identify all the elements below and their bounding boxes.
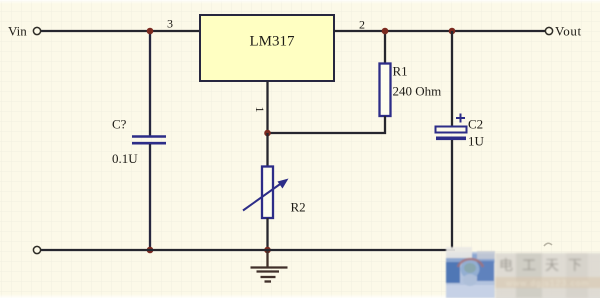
svg-text:电工天下: 电工天下	[499, 257, 591, 273]
wire R1 bottom to ADJ	[268, 116, 386, 133]
capacitor C1 plates	[132, 137, 166, 144]
junction node IN	[147, 28, 154, 35]
capacitor C2 polarized	[436, 114, 467, 141]
junction node ADJ	[264, 130, 271, 137]
junction node OUT-R1	[382, 28, 389, 35]
pin 1 wire (ADJ)	[266, 81, 268, 133]
wire top-right	[334, 30, 545, 32]
svg-text:1: 1	[253, 107, 267, 113]
terminal Vout	[545, 27, 552, 34]
terminal Vin	[33, 27, 40, 34]
svg-text:3: 3	[167, 17, 173, 31]
svg-text:C?: C?	[112, 117, 127, 132]
wire C2 bottom	[451, 140, 453, 250]
wire input cap drop	[149, 31, 151, 136]
wire R2 bottom	[266, 218, 268, 250]
junction node GND-R2	[264, 247, 271, 254]
bottom rail wire	[41, 249, 455, 251]
svg-text:R2: R2	[291, 200, 306, 215]
junction node GND-C1	[147, 247, 154, 254]
wire ADJ to R2	[266, 133, 268, 167]
svg-text:R1: R1	[393, 64, 408, 79]
ground	[251, 250, 288, 282]
stray mark	[544, 243, 552, 246]
svg-text:Vout: Vout	[555, 24, 582, 39]
svg-text:Vin: Vin	[8, 24, 27, 39]
svg-text:240 Ohm: 240 Ohm	[393, 84, 442, 99]
svg-text:C2: C2	[468, 117, 483, 132]
potentiometer R2	[243, 167, 289, 219]
wire C1 bottom	[149, 144, 151, 250]
svg-text:www.dgjs123.com: www.dgjs123.com	[505, 278, 590, 288]
wire R1 top	[384, 31, 386, 64]
junction node OUT-C2	[449, 28, 456, 35]
regulator U1 LM317	[200, 15, 334, 81]
terminal bottom-left	[33, 246, 40, 253]
wire top-left	[41, 30, 200, 32]
resistor R1	[380, 64, 391, 117]
svg-text:2: 2	[359, 18, 365, 32]
svg-text:LM317: LM317	[250, 34, 296, 50]
watermark text panel	[495, 253, 600, 298]
watermark logo	[446, 247, 495, 298]
svg-text:1U: 1U	[468, 134, 485, 149]
svg-text:0.1U: 0.1U	[112, 151, 138, 166]
wire C2 top	[451, 31, 453, 127]
